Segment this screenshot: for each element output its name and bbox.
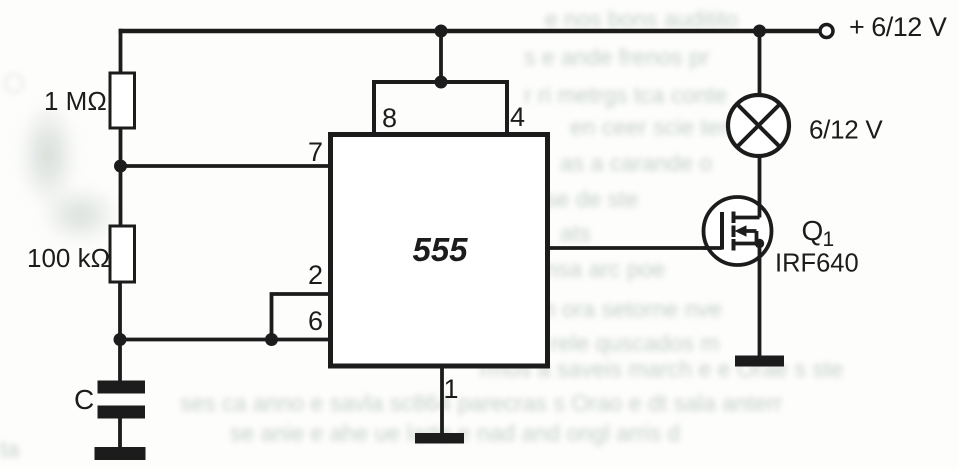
wire: R1 bottom to node A to R2 top xyxy=(119,128,123,226)
resistor R1 1 Mohm body xyxy=(110,73,135,128)
svg-text:1: 1 xyxy=(823,228,835,251)
transistor Q1 body circle xyxy=(704,197,772,265)
Q1 drain stub xyxy=(734,204,760,218)
svg-text:6/12 V: 6/12 V xyxy=(809,115,883,145)
wire: Q1 source down to ground xyxy=(758,244,762,357)
junction: rail to 555 pins 8/4 branch xyxy=(435,25,448,38)
junction: pin2 branch on pin6 wire xyxy=(265,333,278,346)
wire: 555 pin 1 to ground xyxy=(440,366,444,433)
wire: rail junction down to lamp top xyxy=(758,31,762,94)
wire: lamp bottom to Q1 drain xyxy=(758,157,762,218)
wire: R2 bottom to node B to capacitor xyxy=(118,282,122,381)
svg-text:+ 6/12 V: + 6/12 V xyxy=(849,12,947,42)
svg-text:100 kΩ: 100 kΩ xyxy=(27,243,110,273)
resistor R2 100 kohm body xyxy=(110,226,135,282)
junction: rail to lamp branch xyxy=(753,25,766,38)
lamp LP1 6/12V (circle with X) xyxy=(728,95,789,156)
wire: pins 8/4 bracket xyxy=(374,80,507,135)
svg-text:1: 1 xyxy=(444,374,459,404)
wire: branch up to 555 pin 2 xyxy=(272,294,331,340)
Q1 gate lead (from pin3 wire into circle) xyxy=(703,246,722,250)
junction: node A (R1/R2/pin7) xyxy=(114,160,127,173)
junction: bracket mid dot xyxy=(435,76,448,89)
label: Q1 designator xyxy=(802,215,835,251)
junction: node B (R2/C/pin6) xyxy=(114,333,127,346)
svg-text:4: 4 xyxy=(510,102,525,132)
capacitor C bottom plate xyxy=(98,406,146,419)
Q1 body-diode arrow xyxy=(735,225,757,243)
svg-text:Q: Q xyxy=(802,215,824,246)
Q1 channel segments xyxy=(732,212,736,251)
wire: C bottom plate to ground xyxy=(118,419,122,449)
IC U1 555 body xyxy=(331,135,548,367)
wire: 555 pin 3 output to Q1 gate xyxy=(548,246,723,250)
svg-text:7: 7 xyxy=(308,137,323,167)
ground: 555 pin 1 xyxy=(415,433,464,444)
wire: top supply rail xyxy=(119,29,820,34)
svg-text:8: 8 xyxy=(382,103,397,133)
wire: node B to 555 pin 6 xyxy=(120,338,330,342)
Q1 gate bar xyxy=(720,212,724,250)
junction: Q1 source to body tie xyxy=(755,239,764,248)
wire: rail down to R1 top xyxy=(119,29,123,73)
faint page bleed-through background (decorative) xyxy=(545,6,738,33)
svg-text:555: 555 xyxy=(412,231,468,268)
svg-text:IRF640: IRF640 xyxy=(775,250,859,278)
terminal: + supply open circle xyxy=(820,25,833,38)
ground: below capacitor C xyxy=(95,447,146,460)
ground: Q1 source xyxy=(735,356,784,367)
wire: rail junction down to pins 8/4 bracket xyxy=(439,31,443,82)
Q1 source stub xyxy=(734,242,760,246)
svg-text:6: 6 xyxy=(308,306,323,336)
svg-text:C: C xyxy=(74,384,94,415)
svg-text:2: 2 xyxy=(308,260,323,290)
svg-text:1 MΩ: 1 MΩ xyxy=(44,86,107,116)
capacitor C top plate xyxy=(98,381,146,394)
wire: node A to 555 pin 7 xyxy=(121,164,331,168)
